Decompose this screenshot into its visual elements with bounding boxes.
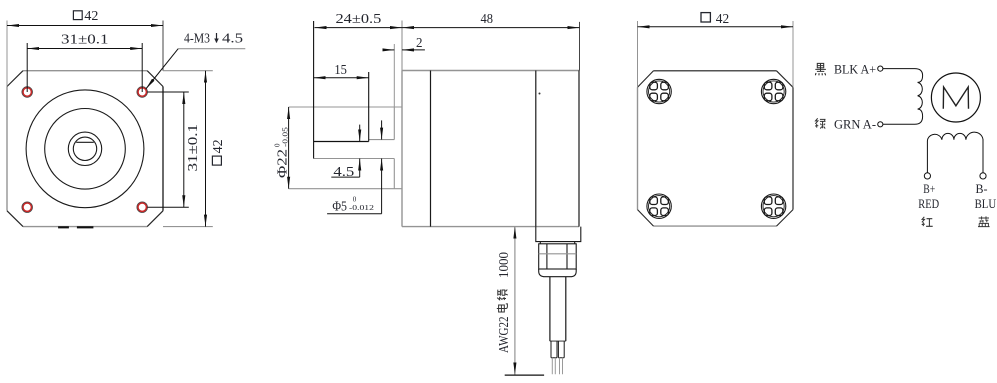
svg-text:-0.012: -0.012 — [349, 204, 375, 212]
shaft flat line — [314, 141, 369, 143]
svg-text:4.5: 4.5 — [222, 32, 243, 47]
svg-text:RED: RED — [918, 197, 939, 211]
svg-text:2: 2 — [416, 36, 423, 51]
svg-text:24±0.5: 24±0.5 — [336, 12, 382, 27]
pilot circle large — [26, 90, 144, 208]
flat end + extension — [368, 72, 370, 142]
cable — [550, 277, 566, 341]
cable gland dome — [539, 269, 577, 277]
svg-text:B+: B+ — [923, 182, 935, 196]
svg-text:Φ5: Φ5 — [332, 199, 347, 214]
dimension square42 (rear) — [638, 12, 794, 88]
hole H2 top-right — [137, 87, 147, 97]
motor body right edge — [578, 71, 580, 227]
svg-text:31±0.1: 31±0.1 — [61, 33, 109, 48]
svg-text:0: 0 — [274, 143, 282, 147]
shaft boss circle — [68, 132, 101, 165]
coil A — [883, 82, 923, 124]
motor body outline — [402, 71, 579, 227]
shaft circle — [73, 137, 96, 160]
dimension 24±0.5 — [315, 12, 403, 71]
hole H4 bottom-right — [137, 202, 147, 212]
cable gland flange — [536, 227, 581, 244]
shaft flat chord — [76, 141, 94, 143]
dimension phi5 — [327, 120, 382, 214]
terminal A+ — [878, 66, 883, 71]
terminal B- — [980, 173, 986, 179]
boss phi22 outline + extension lines — [289, 107, 402, 189]
glyph lan (blue) — [978, 216, 990, 226]
dimension 15 — [314, 63, 369, 78]
svg-text:1000: 1000 — [497, 252, 512, 278]
rear face black edges — [654, 71, 794, 210]
svg-text:B-: B- — [976, 182, 988, 196]
dimension 31±0.1 right (front) — [148, 92, 202, 207]
wire A+ — [883, 69, 923, 83]
rear endplate line — [535, 71, 537, 227]
screw S3 — [647, 194, 671, 218]
svg-text:AWG22: AWG22 — [497, 317, 512, 354]
wire leads insulated — [551, 341, 564, 358]
cable gland hex nut — [539, 244, 577, 269]
dimension phi22 — [274, 107, 291, 189]
dimension 4.5 — [331, 125, 359, 181]
shaft end + extension — [313, 21, 315, 159]
dimension square42 right (front) — [163, 71, 226, 227]
glyph dian — [497, 304, 508, 312]
front face chamfers — [7, 71, 163, 227]
svg-text:BLK A+: BLK A+ — [834, 63, 876, 77]
svg-text:4.5: 4.5 — [333, 165, 354, 180]
svg-text:15: 15 — [334, 63, 347, 78]
svg-text:GRN A-: GRN A- — [834, 118, 876, 132]
callout 4-M3 depth 4.5 — [146, 32, 246, 90]
dimension 48 — [402, 12, 580, 71]
screw S1 — [647, 79, 671, 103]
svg-text:31±0.1: 31±0.1 — [186, 124, 201, 172]
coil B — [927, 132, 983, 173]
dimension 31±0.1 top (front) — [27, 33, 142, 93]
shaft outline gray parts — [314, 140, 395, 159]
svg-text:-0.05: -0.05 — [282, 126, 290, 147]
rear face outline gray edges — [638, 87, 777, 226]
glyph lv (green) — [815, 118, 825, 128]
svg-text:42: 42 — [716, 12, 729, 27]
front face outline gray edges — [7, 71, 147, 227]
svg-text:0: 0 — [353, 196, 357, 204]
svg-text:42: 42 — [211, 139, 226, 153]
terminal A- — [878, 122, 883, 127]
stray dot on body — [539, 93, 541, 95]
dimension 2 — [385, 36, 425, 107]
hole H1 top-left — [22, 87, 32, 97]
svg-text:Φ22: Φ22 — [276, 149, 291, 178]
svg-text:4-M3: 4-M3 — [184, 32, 210, 47]
screw S2 — [761, 79, 785, 103]
front endplate line — [430, 71, 432, 227]
glyph hei (black) — [815, 63, 826, 75]
svg-text:BLU: BLU — [975, 197, 997, 211]
hole H3 bottom-left — [22, 202, 32, 212]
terminal B+ — [924, 173, 930, 179]
dimension cable 1000 — [497, 227, 544, 376]
dimension square42 top (front) — [7, 9, 163, 87]
boss circle phi22 — [45, 109, 126, 190]
screw S4 — [761, 194, 785, 218]
glyph hong (red) — [922, 217, 933, 227]
front face right edge — [162, 87, 164, 211]
stripped conductors — [552, 358, 562, 375]
motor circle M — [931, 73, 980, 122]
glyph lan(cable) — [497, 289, 508, 300]
svg-text:48: 48 — [481, 12, 494, 27]
rear face chamfers — [638, 71, 794, 226]
svg-text:42: 42 — [84, 9, 98, 24]
bottom edge black dashes — [58, 226, 93, 228]
